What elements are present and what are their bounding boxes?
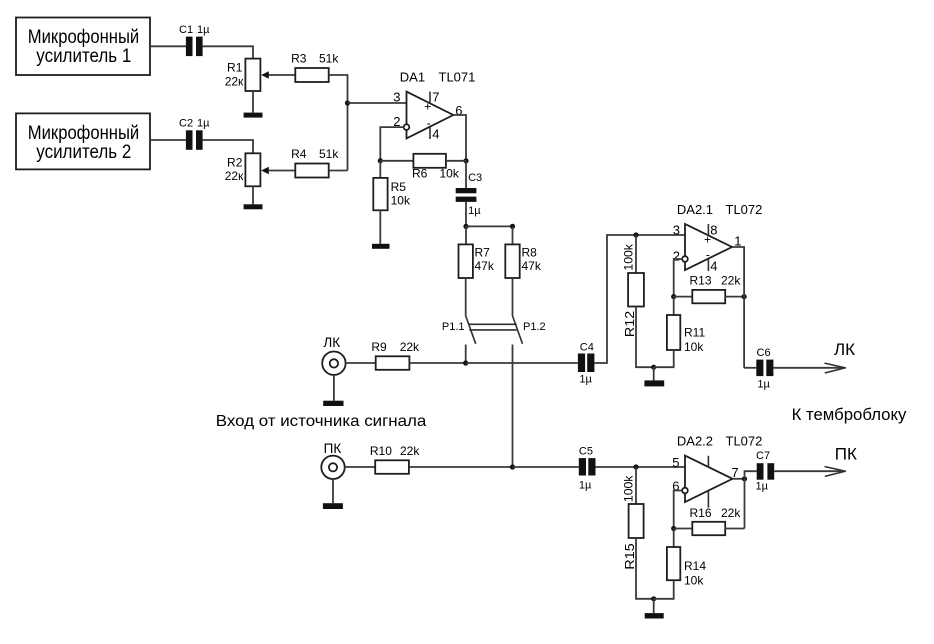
node mix junction	[345, 100, 350, 105]
output arrow ЛК	[825, 340, 856, 373]
potentiometer R1 22к	[225, 59, 269, 91]
svg-text:22k: 22k	[721, 506, 741, 520]
wire R7 top	[465, 226, 467, 244]
wire	[329, 75, 348, 171]
wire	[596, 466, 686, 468]
wire	[379, 210, 381, 244]
svg-text:ПК: ПК	[835, 444, 857, 463]
wire pin6 output	[453, 115, 466, 161]
wire	[674, 296, 693, 298]
wire	[725, 296, 744, 298]
wire ground stub	[653, 599, 655, 613]
node feedback DA2.1	[742, 294, 747, 299]
ground	[644, 380, 664, 386]
wire wiper R1 to R3	[269, 74, 296, 76]
wire R12 top	[635, 235, 637, 273]
wire	[513, 466, 579, 468]
ground	[323, 401, 343, 406]
wire	[409, 466, 513, 468]
svg-text:10k: 10k	[440, 167, 460, 181]
wire C3 top	[465, 161, 467, 188]
wire C6 left	[744, 367, 756, 369]
wire C4 to DA2.1 pin3	[594, 235, 685, 363]
svg-text:R2: R2	[227, 155, 243, 169]
svg-text:TL071: TL071	[439, 69, 476, 84]
capacitor C7 1µ	[756, 450, 775, 492]
svg-text:R3: R3	[291, 51, 307, 65]
wire pin2 loop	[380, 127, 403, 161]
wire R14 top	[673, 529, 675, 548]
svg-text:DA2.1: DA2.1	[677, 202, 713, 217]
resistor R7 47k	[459, 244, 495, 278]
svg-text:10k: 10k	[684, 573, 704, 587]
wire C6 to output arrow	[773, 367, 844, 369]
capacitor C2	[179, 118, 210, 150]
node R12 tap	[633, 232, 638, 237]
svg-text:TL072: TL072	[726, 202, 763, 217]
op-amp DA2.1 TL072	[673, 202, 763, 273]
svg-text:DA2.2: DA2.2	[677, 433, 713, 448]
wire	[150, 139, 186, 141]
svg-text:R5: R5	[391, 180, 407, 194]
wire output DA2.1 down to C6	[732, 247, 744, 368]
input jack ЛК	[322, 335, 345, 401]
svg-text:P1.1: P1.1	[442, 321, 465, 333]
switch P1.2	[513, 278, 546, 467]
capacitor C5 1µ	[579, 445, 596, 491]
resistor R11 10k	[667, 315, 706, 354]
wire C3 bottom	[465, 202, 467, 227]
svg-text:P1.2: P1.2	[523, 321, 546, 333]
block: Микрофонный усилитель 2	[16, 113, 150, 169]
svg-text:1µ: 1µ	[579, 479, 592, 491]
node P1.1 bottom	[463, 360, 468, 365]
svg-text:R16: R16	[690, 506, 712, 520]
svg-text:C7: C7	[756, 450, 770, 462]
svg-text:R8: R8	[522, 245, 538, 259]
resistor R13 22k	[690, 273, 742, 303]
wire R15 bottom to ground node	[636, 538, 654, 599]
wire	[150, 45, 186, 47]
output arrow ПК	[825, 444, 858, 476]
svg-text:3: 3	[673, 222, 680, 237]
wire	[674, 528, 693, 530]
svg-text:К темброблоку: К темброблоку	[792, 405, 907, 424]
wire to R8	[466, 225, 513, 227]
svg-text:22k: 22k	[721, 273, 741, 287]
svg-text:C6: C6	[757, 347, 771, 359]
ground	[244, 204, 263, 209]
svg-text:22к: 22к	[225, 74, 244, 88]
node C3/R7	[463, 224, 468, 229]
svg-text:10k: 10k	[391, 194, 411, 208]
wire	[466, 362, 578, 364]
svg-text:22к: 22к	[225, 169, 244, 183]
wire	[203, 140, 253, 153]
svg-text:R7: R7	[475, 245, 491, 259]
svg-text:51k: 51k	[319, 51, 339, 65]
wire	[252, 186, 254, 204]
svg-text:7: 7	[432, 90, 439, 105]
svg-text:3: 3	[393, 90, 400, 105]
svg-text:51k: 51k	[319, 147, 339, 161]
wire R15 top	[635, 467, 637, 504]
svg-text:ЛК: ЛК	[834, 340, 855, 359]
wire R12 bottom to ground node	[636, 307, 654, 368]
resistor R8 47k	[505, 244, 542, 278]
node feedback left	[378, 158, 383, 163]
wire wiper R2 to R4	[269, 170, 296, 172]
resistor R4 51k	[291, 147, 339, 178]
wire ground stub	[653, 367, 655, 380]
wire pin2 loop DA2.1	[674, 259, 683, 297]
svg-text:R9: R9	[371, 340, 387, 354]
wire	[409, 362, 465, 364]
svg-text:1µ: 1µ	[756, 481, 769, 493]
svg-text:1µ: 1µ	[468, 205, 481, 217]
svg-text:1µ: 1µ	[197, 118, 210, 130]
wire jog to C7 row	[745, 471, 757, 528]
svg-text:DA1: DA1	[400, 69, 425, 84]
node P1.2 bottom	[510, 464, 515, 469]
op-amp DA2.2 TL072	[672, 433, 762, 507]
svg-text:1µ: 1µ	[579, 374, 592, 386]
svg-text:47k: 47k	[522, 259, 542, 273]
svg-text:TL072: TL072	[726, 433, 763, 448]
capacitor C3 1µ	[456, 172, 482, 217]
svg-text:100k: 100k	[621, 243, 635, 271]
svg-text:усилитель 1: усилитель 1	[36, 46, 131, 67]
wire R8 top	[512, 226, 514, 244]
node ground DA2.2	[651, 596, 656, 601]
node R15 tap	[633, 464, 638, 469]
block: Микрофонный усилитель 1	[16, 18, 150, 76]
resistor R12 100k	[621, 243, 644, 337]
svg-text:10k: 10k	[684, 340, 704, 354]
switch link	[469, 324, 517, 330]
wire	[252, 91, 254, 113]
svg-text:R13: R13	[690, 273, 712, 287]
svg-text:R6: R6	[412, 167, 428, 181]
svg-text:1µ: 1µ	[197, 24, 210, 36]
wire	[346, 362, 376, 364]
capacitor C6 1µ	[756, 347, 773, 390]
resistor R15 100k	[621, 475, 643, 570]
resistor R6 10k	[412, 154, 460, 181]
wire R5 top	[379, 161, 381, 178]
ground	[372, 244, 390, 249]
capacitor C4 1µ	[578, 341, 595, 385]
potentiometer R2 22к	[225, 153, 269, 186]
wire output DA2.2	[733, 478, 745, 480]
svg-text:R14: R14	[684, 559, 706, 573]
svg-text:R10: R10	[370, 444, 392, 458]
ground	[645, 613, 664, 618]
svg-text:ЛК: ЛК	[323, 335, 340, 350]
wire	[345, 466, 376, 468]
node R8 top	[510, 224, 515, 229]
wire to pin 3	[348, 102, 407, 104]
resistor R16 22k	[690, 506, 742, 535]
svg-text:22k: 22k	[400, 444, 420, 458]
resistor R3 51k	[291, 51, 339, 82]
node pin2/R13/R11	[671, 294, 676, 299]
wire R11 top	[673, 297, 675, 315]
resistor R9 22k	[371, 340, 420, 370]
svg-text:1µ: 1µ	[757, 378, 770, 390]
svg-text:Вход от источника сигнала: Вход от источника сигнала	[216, 413, 427, 430]
svg-text:100k: 100k	[621, 475, 635, 503]
svg-text:R12: R12	[622, 311, 637, 337]
svg-text:4: 4	[710, 258, 717, 273]
wire	[446, 160, 466, 162]
node feedback right	[463, 158, 468, 163]
wire pin6 loop DA2.2	[674, 491, 683, 529]
svg-text:R15: R15	[622, 543, 637, 569]
switch P1.1	[442, 278, 476, 363]
ground	[244, 113, 263, 118]
op-amp DA1 TL071	[393, 69, 475, 141]
wire R6 row	[380, 160, 413, 162]
svg-text:47k: 47k	[475, 259, 495, 273]
node ground DA2.1	[651, 365, 656, 370]
ground	[323, 503, 343, 509]
wire R11 bottom	[654, 350, 674, 367]
svg-text:7: 7	[731, 465, 738, 480]
svg-text:C4: C4	[580, 341, 594, 353]
svg-text:R1: R1	[227, 61, 243, 75]
wire	[725, 528, 744, 530]
svg-text:4: 4	[432, 126, 439, 141]
wire	[329, 170, 348, 172]
svg-text:ПК: ПК	[324, 441, 342, 456]
wire R14 bottom	[654, 580, 674, 599]
capacitor C1	[179, 24, 210, 56]
wire C7 to output arrow	[774, 470, 843, 472]
svg-text:C1: C1	[179, 24, 193, 36]
svg-text:5: 5	[672, 455, 679, 470]
svg-text:22k: 22k	[400, 340, 420, 354]
svg-text:усилитель 2: усилитель 2	[36, 142, 131, 163]
node pin6/R16/R14	[671, 526, 676, 531]
svg-text:C3: C3	[468, 172, 482, 184]
svg-text:8: 8	[710, 222, 717, 237]
input jack ПК	[321, 441, 344, 503]
resistor R10 22k	[370, 444, 420, 474]
wire	[203, 46, 253, 58]
svg-text:C5: C5	[579, 445, 593, 457]
resistor R5 10k	[373, 178, 411, 210]
svg-text:R4: R4	[291, 147, 307, 161]
svg-text:C2: C2	[179, 118, 193, 130]
svg-text:R11: R11	[684, 326, 705, 340]
resistor R14 10k	[667, 547, 706, 587]
node output DA2.2	[742, 476, 747, 481]
